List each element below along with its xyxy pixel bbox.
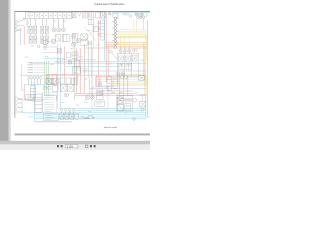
svg-text:1 /24: 1 /24 bbox=[67, 145, 73, 149]
svg-text:1: 1 bbox=[115, 127, 116, 129]
svg-text:Hydraulic system / Hydraulic s: Hydraulic system / Hydraulic system bbox=[95, 3, 125, 6]
